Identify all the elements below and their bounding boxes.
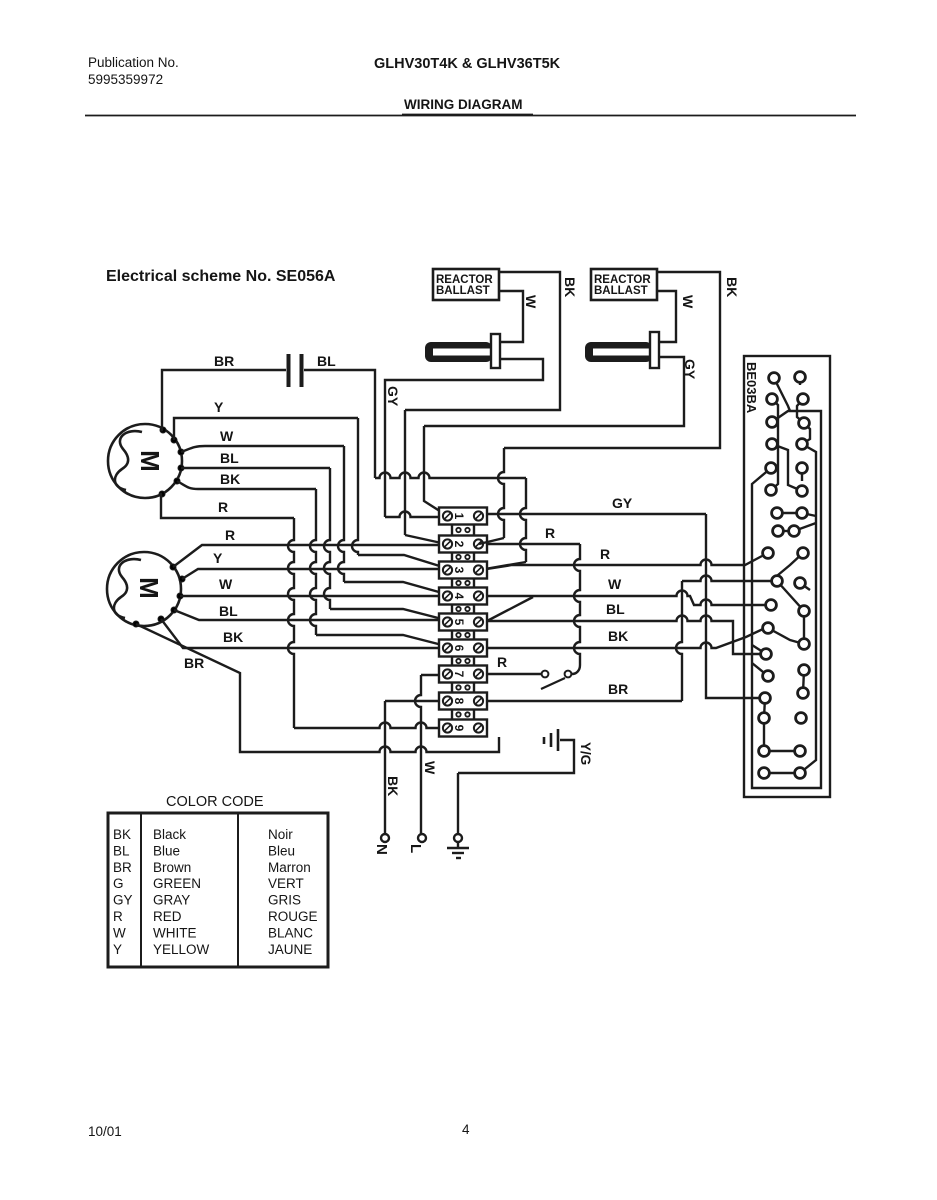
svg-text:COLOR CODE: COLOR CODE: [166, 794, 264, 810]
svg-text:2: 2: [452, 541, 466, 548]
wire M1 W: dot curve to y446 right to x344: [181, 446, 344, 452]
wire M2 W: dot right y596 to T4 left screw: [180, 595, 446, 597]
terminal screws with slashes: [443, 511, 452, 520]
reactor ballast 2 box: [591, 269, 657, 300]
switch right contact: [565, 671, 572, 678]
svg-text:Marron: Marron: [268, 860, 311, 875]
heading underline: [402, 114, 533, 116]
capacitor plate right: [300, 354, 304, 387]
svg-text:GLHV30T4K & GLHV36T5K: GLHV30T4K & GLHV36T5K: [374, 56, 561, 72]
wire M2 BK: dot diag to y648 right to T6 left screw: [161, 619, 446, 648]
svg-text:R: R: [545, 525, 555, 541]
wire M2 BL: dot diag to y620 right to T5 left screw: [174, 610, 446, 620]
PCB inner trace loop: [752, 411, 821, 788]
wire M2 R: dot diag to y545 right to T2 left screw: [173, 545, 446, 567]
color code table frame: [108, 813, 328, 967]
terminal L open circle: [418, 834, 426, 842]
svg-text:3: 3: [452, 567, 466, 574]
svg-text:R: R: [600, 546, 610, 562]
svg-text:R: R: [113, 909, 123, 924]
svg-text:Y: Y: [214, 399, 224, 415]
reactor ballast 1 box: [433, 269, 499, 300]
wire M1 Y vertical x358 down (hop y546) to y555: [352, 418, 358, 555]
svg-text:W: W: [113, 925, 126, 940]
svg-text:Y: Y: [113, 942, 122, 957]
svg-text:9: 9: [452, 725, 466, 732]
svg-text:BK: BK: [562, 277, 578, 297]
switch lever: [541, 678, 565, 689]
svg-text:GREEN: GREEN: [153, 876, 201, 891]
wire M1 R down x294 (hops) to y728: [288, 518, 294, 728]
svg-text:BK: BK: [724, 277, 740, 297]
svg-text:6: 6: [452, 645, 466, 652]
wire ballast2 W: box right y291 to x676 down to lamp2 bar: [657, 291, 676, 342]
PCB copper traces: [774, 378, 790, 411]
wire M1 BL jog y609 to x403 diag to T5 left screw: [330, 609, 446, 620]
wire earth up x458 to y773: [457, 773, 459, 834]
svg-text:WHITE: WHITE: [153, 925, 197, 940]
wire M2 BR: dot diag down to x240 y673 down to y752 right (hops x385 x422) to x499 up to T9 right: [136, 624, 499, 752]
svg-text:7: 7: [452, 671, 466, 678]
wire T9 left jog y728 (hops x385 x421): [294, 723, 446, 728]
svg-text:GY: GY: [113, 893, 133, 908]
wire BL-cap diagonal into T3 right screw: [479, 562, 526, 570]
svg-text:Brown: Brown: [153, 860, 191, 875]
header rule line: [85, 115, 856, 117]
svg-text:VERT: VERT: [268, 876, 304, 891]
svg-text:BALLAST: BALLAST: [594, 285, 648, 297]
wire M1 BK: dot to y489 right to x316: [177, 481, 316, 489]
wire BK2 diagonal into T2 right screw: [479, 538, 504, 544]
wire GY from T1 right: y514 right to x706 (hops x504 x526 on verticals): [487, 513, 706, 515]
wire GY vertical x706 down to y698 right into PCB pad: [706, 514, 760, 698]
svg-text:BE03BA: BE03BA: [744, 362, 759, 414]
svg-text:4: 4: [452, 593, 466, 600]
earth terminal circle: [454, 834, 462, 842]
svg-text:L: L: [407, 844, 424, 853]
svg-text:BL: BL: [220, 450, 239, 466]
color code divider 2: [237, 813, 239, 967]
svg-text:BK: BK: [113, 827, 131, 842]
svg-text:4: 4: [462, 1122, 470, 1137]
wire M1 BR: dot up x162 to y370: [162, 370, 286, 430]
svg-text:YELLOW: YELLOW: [153, 942, 210, 957]
svg-text:ROUGE: ROUGE: [268, 909, 318, 924]
svg-text:Y: Y: [213, 550, 223, 566]
svg-text:GY: GY: [612, 495, 633, 511]
wire lamp2 GY: bar right y357 to x684 down to y426 left to x424: [424, 357, 684, 426]
wire y773 right to x574 up to ground YG: [458, 740, 574, 773]
earth terminal stem+bars: [457, 842, 459, 848]
svg-text:BR: BR: [608, 681, 628, 697]
lamp 2 holder bar: [650, 332, 659, 368]
wire M1 W vertical x344 down (hops y546 y568) to y582: [338, 446, 344, 582]
wire ballast1 W: box right y291 to x523 down to lamp1 bar: [499, 291, 523, 342]
svg-text:Bleu: Bleu: [268, 843, 295, 858]
wire BK1 diagonal into T2 left screw: [405, 535, 446, 544]
svg-text:GRAY: GRAY: [153, 893, 190, 908]
wire N: vertical x385 from T8 jog down to N terminal: [384, 701, 386, 834]
wire W from T4 right: y596 (hop x682) dip to y605 (hop x706) to PCB pad: [487, 591, 765, 606]
terminal strip blocks 1-9: [439, 508, 487, 525]
wire R from T2 right: y544 right to x580 (hop on x526 vert): [487, 543, 580, 545]
svg-text:W: W: [220, 428, 234, 444]
PCB outer border: [744, 356, 830, 797]
svg-text:BALLAST: BALLAST: [436, 285, 490, 297]
svg-text:BR: BR: [214, 353, 234, 369]
wire M1 BL vertical x330 down (hops y546 y568 y594) to y609: [324, 468, 330, 609]
wire M1 BK jog y635 to x403 diag to T6 left screw: [316, 635, 446, 646]
svg-text:Y/G: Y/G: [578, 742, 593, 765]
wire BL from T5 right: y621 (hops x682 x706) to x733 down to y654 to PCB pad: [487, 616, 760, 655]
wire ballast2 BK: box right to x720 down to y448 left to x504: [504, 272, 720, 448]
svg-text:W: W: [422, 761, 438, 775]
wire R from T3 right diag + y565 right (hop x706) diag to PCB pad: [487, 556, 762, 569]
wire BK from T6 right: y648 (hop x706) diag up to PCB pad: [487, 629, 763, 648]
motor M1 circle: [108, 424, 182, 498]
ground symbol Y/G bars: [557, 729, 560, 751]
svg-text:R: R: [497, 654, 507, 670]
svg-text:G: G: [113, 876, 124, 891]
terminal N open circle: [381, 834, 389, 842]
lamp 1 tube: [425, 342, 492, 362]
motor M2 winding squiggle: [114, 559, 141, 618]
svg-text:GY: GY: [385, 386, 401, 407]
color code divider 1: [140, 813, 142, 967]
svg-text:BL: BL: [317, 353, 336, 369]
svg-text:W: W: [608, 576, 622, 592]
wire M1 W jog y582 to x403 diag to T4 left screw: [344, 582, 446, 594]
wire BK1 vertical x405 down to y535: [404, 410, 406, 535]
wire T8 left jog y701 from x385 to T8 left screw: [385, 700, 446, 702]
motor M1 winding squiggle: [115, 431, 142, 490]
wire GY2 vertical x424 down to y501 diagonal into T1 left: [424, 426, 446, 515]
svg-text:10/01: 10/01: [88, 1124, 122, 1139]
wire lamp1 GY: bar right y359 to x543 down to y380 left to x385 down to y517 right into T1 left: [385, 359, 543, 517]
svg-text:GRIS: GRIS: [268, 893, 301, 908]
motor M1 terminal dots: [160, 427, 166, 433]
wire L: from T7 left screw left to x421 down to L terminal (hop y701): [421, 674, 446, 676]
svg-text:1: 1: [452, 513, 466, 520]
svg-text:R: R: [225, 527, 235, 543]
motor M2 terminal dots: [170, 564, 176, 570]
wire ballast1 BK: box right to x560 down to y410 left to x405: [405, 272, 560, 410]
svg-text:BK: BK: [223, 629, 243, 645]
motor M2 circle: [107, 552, 181, 626]
svg-text:BK: BK: [608, 628, 628, 644]
lamp 2 tube: [585, 342, 652, 362]
wire M1 R: dot down x161 to y518 right to x294: [161, 494, 294, 518]
svg-text:BL: BL: [219, 603, 238, 619]
svg-text:BLANC: BLANC: [268, 925, 313, 940]
wire BR from T8 right: y701 right to x682 up (hop y648) to y581 right (hop x706) to PCB pad: [487, 700, 682, 702]
svg-text:M: M: [134, 577, 164, 599]
wire R switch vertical x580 down to switch right contact (hops y565 y596 y621 y648): [574, 544, 580, 665]
svg-text:5: 5: [452, 619, 466, 626]
svg-text:N: N: [373, 844, 390, 855]
capacitor plate left: [287, 354, 291, 387]
switch left contact: [542, 671, 549, 678]
svg-text:W: W: [523, 295, 539, 309]
svg-text:W: W: [219, 576, 233, 592]
svg-text:Black: Black: [153, 827, 186, 842]
svg-text:Publication No.: Publication No.: [88, 55, 179, 70]
svg-text:BK: BK: [385, 776, 401, 796]
svg-text:M: M: [135, 450, 165, 472]
svg-text:BK: BK: [220, 471, 240, 487]
svg-text:RED: RED: [153, 909, 182, 924]
wire diagonal T5 right screw up to W line: [487, 597, 533, 621]
svg-text:BR: BR: [184, 655, 204, 671]
svg-text:Blue: Blue: [153, 843, 180, 858]
wire BL-cap vertical x526 down to T3 right (hops y514 y544): [520, 478, 526, 562]
svg-text:GY: GY: [682, 359, 698, 380]
svg-text:R: R: [218, 499, 228, 515]
svg-text:WIRING DIAGRAM: WIRING DIAGRAM: [404, 97, 523, 112]
svg-text:W: W: [680, 295, 696, 309]
wire BK2 vertical x504 down to T2 right diag (hops y478 y514): [498, 448, 504, 538]
wire M1 BK vertical x316 down (hops y546 y568 y594 y620) to y635: [310, 489, 316, 635]
svg-text:BL: BL: [606, 601, 625, 617]
svg-text:BR: BR: [113, 860, 132, 875]
svg-text:JAUNE: JAUNE: [268, 942, 312, 957]
svg-text:BL: BL: [113, 843, 130, 858]
capacitor wire right / BL to x375: [304, 370, 375, 478]
lamp 1 holder bar: [491, 334, 500, 368]
wire M2 Y: dot diag to y569 right to T3 left screw: [182, 569, 446, 579]
svg-text:5995359972: 5995359972: [88, 72, 163, 87]
wire M1 BL: dot right y468 to x330: [181, 467, 330, 469]
svg-text:Noir: Noir: [268, 827, 293, 842]
wire M1 Y jog y555 to x404 diag to T3 left screw: [358, 555, 446, 568]
wire M1 Y: dot to y418 right to x358: [174, 418, 358, 440]
PCB pads: [769, 373, 780, 384]
wire R from T7 right to switch left contact: [487, 673, 541, 675]
wire BL-cap trunk y478 to x526 (hops x385 x405 x424): [375, 473, 526, 478]
terminal strip necks with jumper holes: [451, 525, 453, 536]
svg-text:8: 8: [452, 698, 466, 705]
svg-text:Electrical scheme No. SE056A: Electrical scheme No. SE056A: [106, 268, 336, 285]
